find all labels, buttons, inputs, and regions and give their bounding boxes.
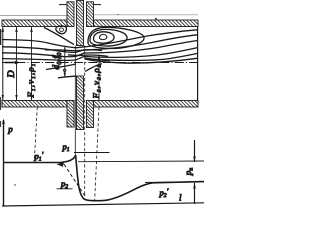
p1 peak level line [74,152,110,154]
section line 2-2 (right of plate) [98,55,100,101]
svg-text:D: D [6,70,17,79]
l axis (abscissa) [2,203,204,206]
pipe top wall right segment [94,20,199,27]
streamline below centerline right rb1 [85,64,102,72]
streamline s1-r1 [2,30,198,48]
section line 1 (left, D dimension) [2,27,4,100]
d0 dimension line with arrows [63,47,66,78]
reference line p1' level extended [78,160,204,163]
jet throat streamline t1 [45,49,102,52]
streamline below centerline converging b2 [58,76,77,78]
dashed diagonal p2 drop line with arrow [57,162,87,197]
svg-text:p1: p1 [62,142,70,154]
pipe top wall left segment [2,20,67,27]
pipe centerline (dash-dot) with flow arrow [2,61,198,65]
p axis with arrow [2,119,5,207]
pipe bottom wall left segment [2,101,67,108]
pipe right end section line [197,27,199,101]
p2 label underline [57,188,73,190]
pipe bottom wall right segment [94,101,199,108]
streamline r6 [85,58,198,63]
dashed tap line for p1' (x=35) [34,107,37,161]
orifice plate lower half [77,76,84,130]
svg-text:F1,v1,ρ1: F1,v1,ρ1 [25,62,37,98]
svg-text:p2′: p2′ [159,186,169,199]
flange bolt bar lower-left [67,101,74,128]
svg-text:p2: p2 [60,178,68,190]
pressure tap line 1 (solid, x=75.3) [74,46,76,157]
flange bolt bar upper-right [87,2,94,27]
svg-text:l: l [179,193,182,203]
svg-text:pп: pп [183,168,195,177]
flange bolt bar upper-left [67,2,74,27]
scan specks [14,14,157,186]
vortex loops behind plate [88,27,144,48]
section line 3 [30,27,32,100]
svg-text:p1′: p1′ [34,150,44,163]
streamline r5 [86,53,198,60]
dashed section 2-2 continuation [95,107,99,200]
streamline s2-r2 [2,35,198,53]
jet throat streamline t2 [68,55,108,57]
section line 2 [15,27,17,100]
svg-text:p: p [7,124,13,134]
flange bolt bar lower-right [87,101,94,128]
jet lower boundary after plate [85,58,111,61]
pn loss dimension arrows [193,140,196,204]
p2' recovered level line [145,181,204,184]
scan edge marks left border [0,29,2,127]
faint outer pipe wall line (top) [0,15,67,17]
corner vortex separatrix streamline [44,28,74,45]
pressure tap line 2 (dashed, x=84.7) [84,46,86,197]
streamline s3-r3 [2,41,198,57]
streamline below centerline converging b1 [46,64,76,70]
streamline s4-r4 [2,48,198,61]
corner vortex triangles before plate [56,26,67,34]
flange cap line stubs (top) [59,4,68,6]
svg-text:F2,v2,ρ2: F2,v2,ρ2 [91,63,103,99]
main pressure curve [4,155,205,201]
orifice plate upper half [77,1,84,46]
